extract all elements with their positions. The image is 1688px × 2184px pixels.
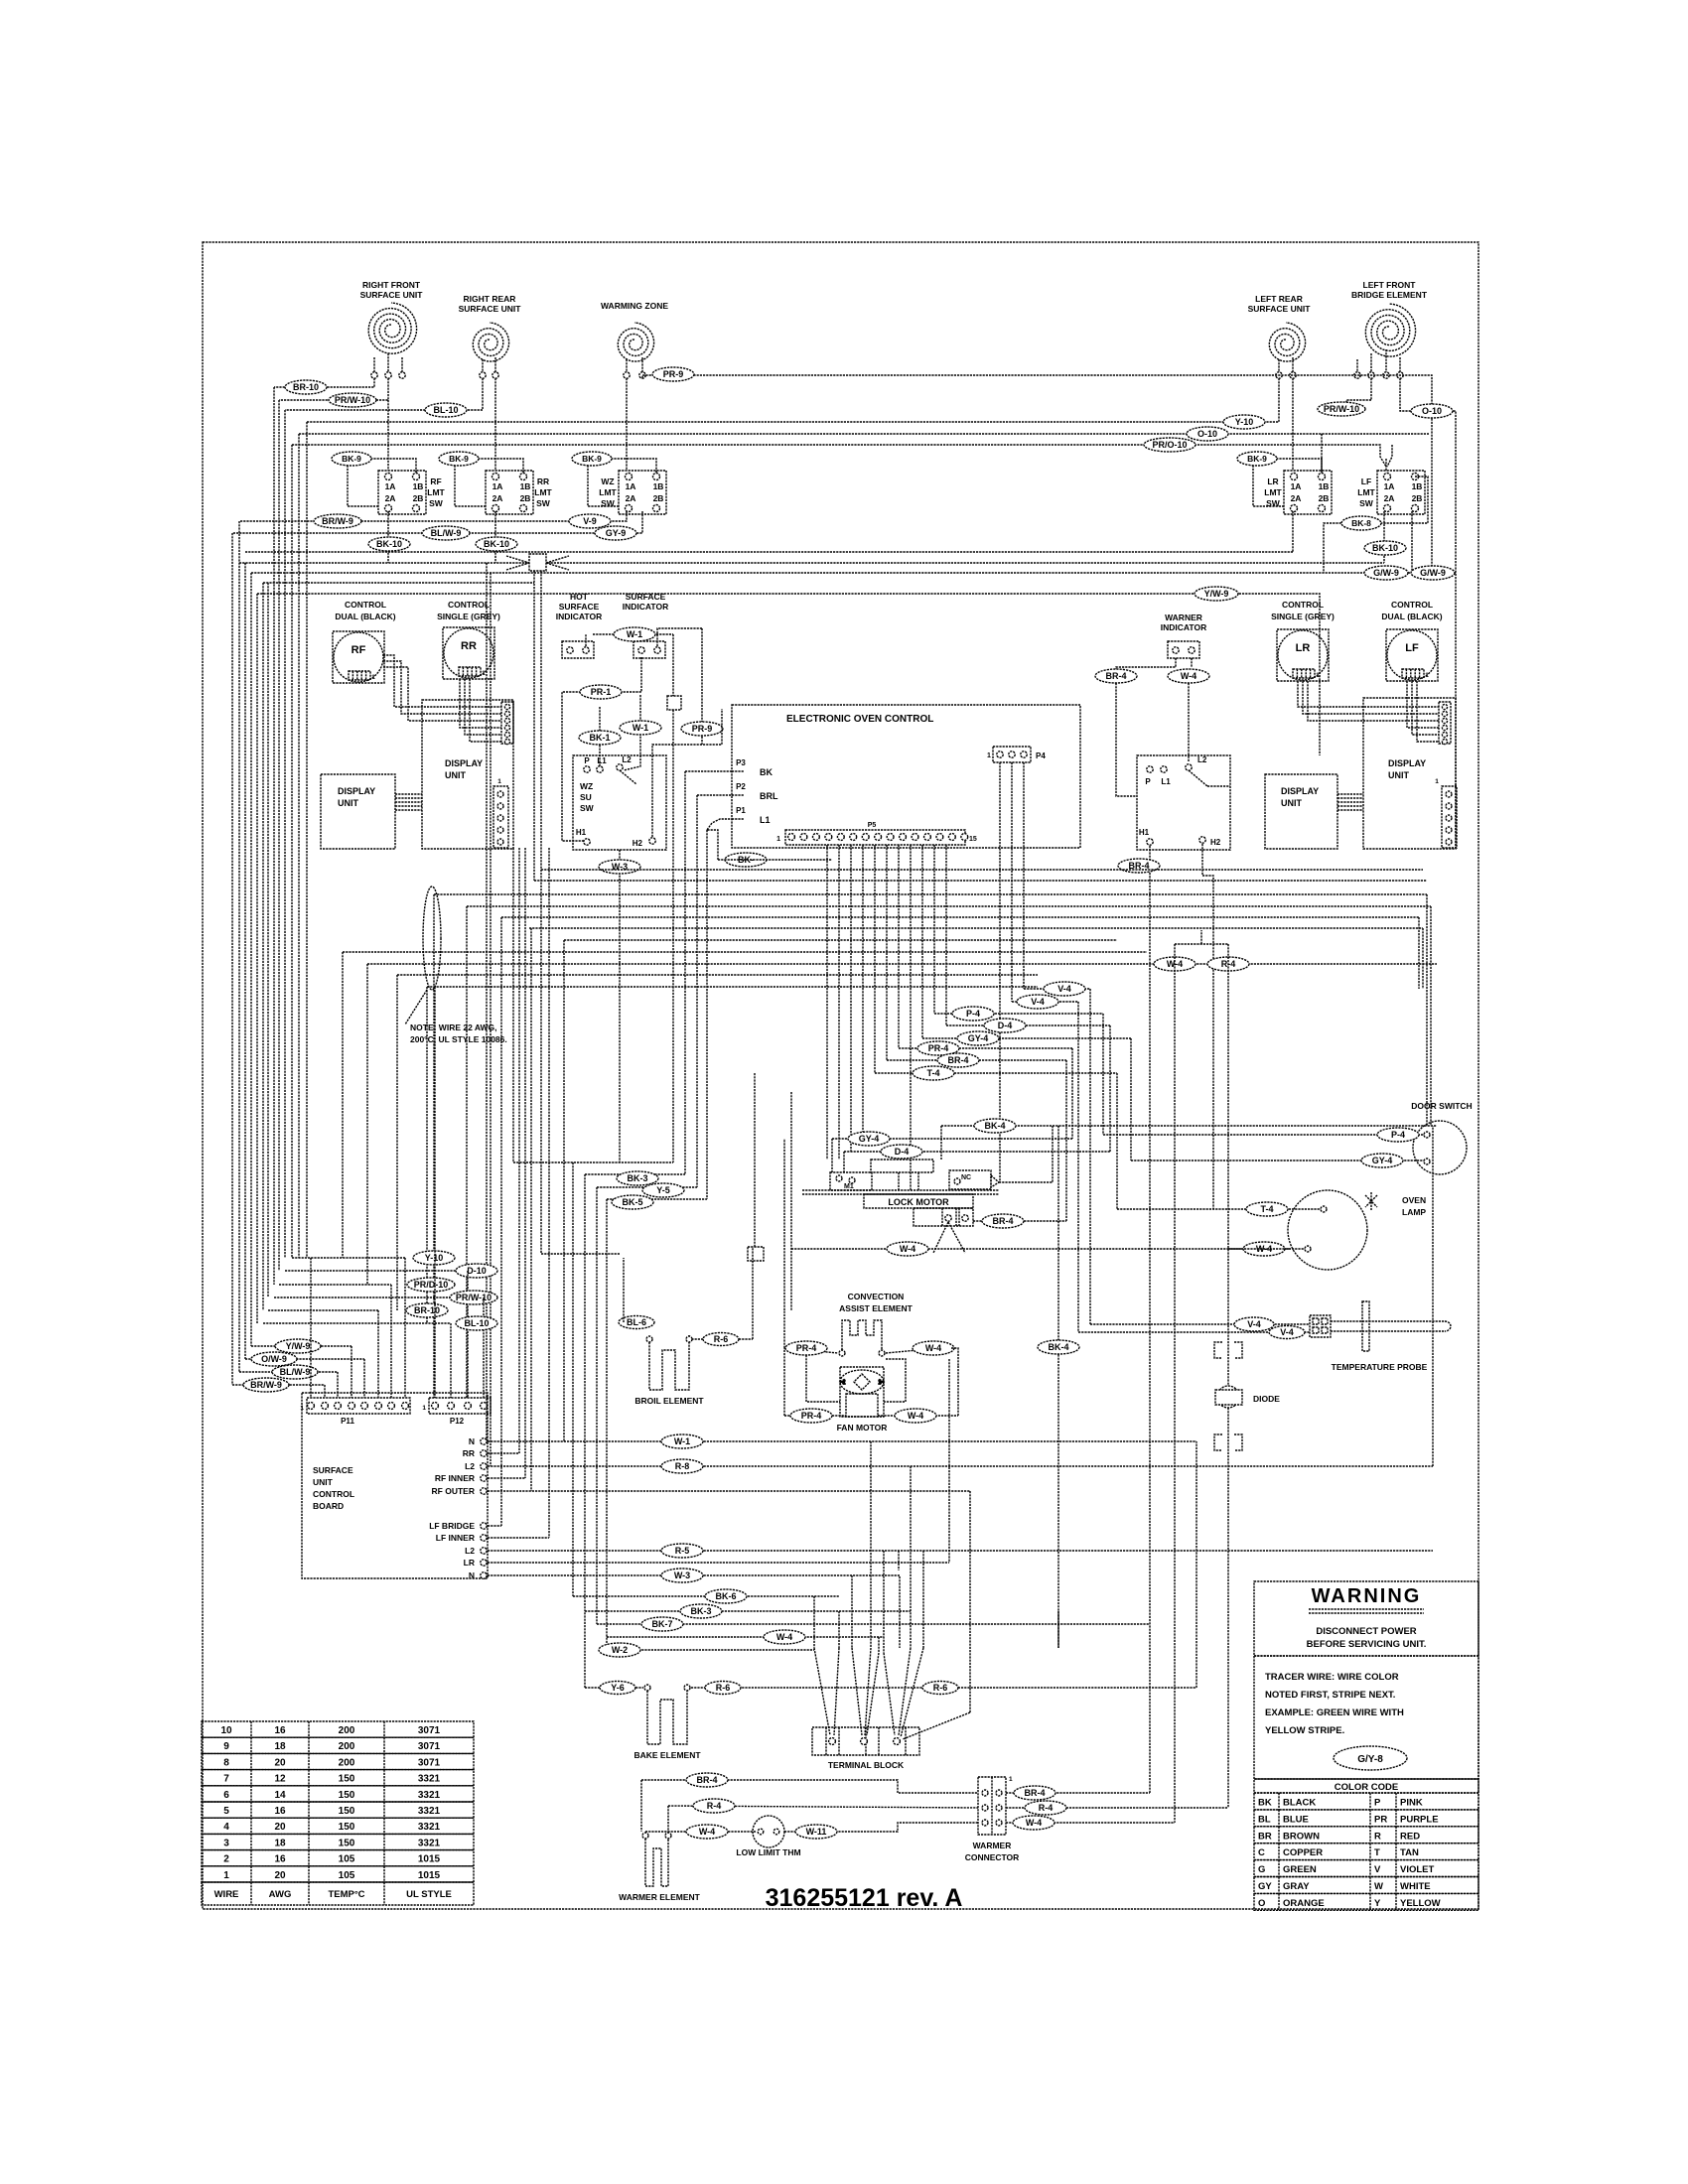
svg-text:6: 6 <box>223 1790 229 1801</box>
svg-text:SW: SW <box>536 498 551 508</box>
wire label W-3 <box>599 860 640 874</box>
pin RF INNER <box>481 1475 487 1481</box>
wire BK-6b vertical <box>1057 1611 1059 1648</box>
svg-text:BRL: BRL <box>760 791 778 801</box>
wire label W-3 <box>661 1569 703 1582</box>
wire BR-10 <box>274 378 374 387</box>
wire V-4 probe b <box>1078 1331 1310 1333</box>
svg-text:WARNER: WARNER <box>1165 613 1202 622</box>
wire harness bus <box>467 905 1431 907</box>
wire label BK-6 <box>705 1589 747 1603</box>
svg-text:150: 150 <box>339 1838 355 1848</box>
svg-text:DISPLAY: DISPLAY <box>445 758 483 768</box>
wire PR-9b <box>701 628 703 745</box>
wire label BK-10 <box>1364 541 1406 555</box>
wire GY-9 bus <box>232 511 642 533</box>
wire BK-7 <box>597 1623 1150 1625</box>
svg-text:1: 1 <box>300 1405 304 1412</box>
wire label G/W-9 <box>1364 566 1408 580</box>
svg-text:DUAL (BLACK): DUAL (BLACK) <box>335 612 395 621</box>
wire label P-4 <box>952 1007 994 1021</box>
svg-text:150: 150 <box>339 1806 355 1817</box>
wire P4 pin verticals <box>1023 762 1025 989</box>
wire D-4 lock <box>844 1151 1110 1153</box>
svg-text:PR-4: PR-4 <box>796 1343 817 1353</box>
wire label GY-4 <box>957 1031 999 1045</box>
wire P1 <box>707 819 732 830</box>
svg-text:W-1: W-1 <box>627 629 642 639</box>
svg-text:Y/W-9: Y/W-9 <box>286 1341 311 1351</box>
wire junction crossing <box>529 554 546 571</box>
wire label G/W-9 <box>1411 566 1455 580</box>
wire label W-4 <box>1154 957 1196 971</box>
svg-text:TEMP°C: TEMP°C <box>328 1889 364 1900</box>
connector P5 <box>785 830 965 845</box>
svg-text:DUAL (BLACK): DUAL (BLACK) <box>1381 612 1442 621</box>
svg-text:WARNING: WARNING <box>1312 1585 1422 1607</box>
surface unit control board <box>302 1393 488 1578</box>
svg-text:L2: L2 <box>465 1546 475 1556</box>
svg-text:W-4: W-4 <box>1026 1818 1042 1828</box>
wire harness bus <box>397 974 1038 976</box>
wire BK-6 <box>573 1595 839 1597</box>
wire LF INNER stub <box>488 1537 549 1539</box>
note arrow <box>405 990 427 1024</box>
svg-text:LR: LR <box>464 1558 475 1568</box>
svg-text:2B: 2B <box>520 493 531 503</box>
svg-text:RF: RF <box>352 644 366 656</box>
wire PR/D-10 harness <box>279 1284 391 1286</box>
wire label BK-8 <box>1341 516 1381 530</box>
wire RF OUTER stub <box>488 1490 970 1492</box>
wire x544 <box>540 571 542 1254</box>
svg-text:PR/W-10: PR/W-10 <box>456 1293 492 1302</box>
svg-text:WIRE: WIRE <box>214 1889 239 1900</box>
wire GY-4 door <box>1131 1160 1424 1161</box>
terminal block funnel wires <box>814 1648 830 1735</box>
wire label PR/W-10 <box>329 393 376 407</box>
svg-text:SURFACE: SURFACE <box>626 592 666 602</box>
svg-text:L1: L1 <box>1161 777 1171 786</box>
svg-text:L1: L1 <box>760 815 771 825</box>
svg-text:2B: 2B <box>1412 493 1423 503</box>
wire vertical x523 <box>518 848 520 1453</box>
svg-text:LR: LR <box>1267 477 1278 486</box>
wire BR-10 harness <box>268 1309 378 1311</box>
wire R-6 broil <box>689 1335 721 1339</box>
svg-text:TRACER WIRE: WIRE COLOR: TRACER WIRE: WIRE COLOR <box>1265 1672 1399 1683</box>
display center bottom connector <box>493 786 508 848</box>
lock motor V legs <box>933 1222 948 1253</box>
pin N <box>481 1572 487 1578</box>
surface unit coil RIGHT FRONT <box>368 303 416 353</box>
wire label BL-10 <box>456 1316 497 1330</box>
wire vertical x505b <box>500 917 502 1526</box>
svg-text:V-4: V-4 <box>1031 997 1045 1007</box>
svg-text:V: V <box>1374 1864 1381 1875</box>
limit switch LF LMT SW <box>1377 471 1425 514</box>
wire BK-10 RF <box>387 511 389 563</box>
low limit thermostat <box>753 1816 784 1847</box>
wire fan loop <box>806 1355 840 1402</box>
svg-text:P-4: P-4 <box>1391 1130 1405 1140</box>
svg-text:SW: SW <box>580 803 595 813</box>
connector P11 <box>307 1398 410 1414</box>
wire P1 vertical <box>706 830 708 1199</box>
wire BR-4 <box>887 1059 1066 1061</box>
wire harness bus <box>564 939 1117 941</box>
svg-text:Y-5: Y-5 <box>656 1185 670 1195</box>
svg-text:V-4: V-4 <box>1247 1319 1261 1329</box>
wire PR-9 <box>642 375 1432 566</box>
wire PR/W-10 at LF <box>1321 400 1371 412</box>
wire harness vertical <box>273 387 275 1285</box>
wire label Y/W-9 <box>1195 587 1238 601</box>
warning box <box>1254 1581 1478 1656</box>
wire W-4 warmer <box>645 1831 757 1833</box>
wire label W-2 <box>599 1643 640 1657</box>
wire label BR-10 <box>406 1303 448 1317</box>
wire SI right up <box>657 628 702 646</box>
svg-text:BK-5: BK-5 <box>622 1197 642 1207</box>
wire P3 <box>685 770 732 772</box>
svg-text:BR/W-9: BR/W-9 <box>322 516 353 526</box>
svg-text:LMT: LMT <box>534 487 552 497</box>
svg-text:GY: GY <box>1258 1881 1272 1892</box>
temperature probe connector <box>1310 1315 1331 1337</box>
display right bottom connector <box>1442 786 1457 848</box>
wire harness vertical <box>244 563 246 1359</box>
svg-text:W-4: W-4 <box>699 1827 715 1837</box>
svg-text:W-2: W-2 <box>612 1645 628 1655</box>
wire PR-4 <box>899 1047 1072 1049</box>
svg-text:2B: 2B <box>413 493 424 503</box>
svg-text:LEFT FRONT: LEFT FRONT <box>1363 280 1417 290</box>
svg-text:PR-9: PR-9 <box>663 369 684 379</box>
wire label Y/W-9 <box>275 1339 321 1353</box>
svg-text:UNIT: UNIT <box>1388 770 1409 780</box>
wire label R-6 <box>922 1682 958 1695</box>
svg-text:150: 150 <box>339 1822 355 1833</box>
wire Y/W-9 harness <box>251 1345 352 1347</box>
svg-text:RR: RR <box>537 477 549 486</box>
svg-text:PURPLE: PURPLE <box>1400 1814 1439 1825</box>
wire R-8 L2 <box>488 1465 1433 1467</box>
wire label Y-5 <box>642 1183 684 1197</box>
wire label R-6 <box>705 1682 741 1695</box>
svg-text:AWG: AWG <box>269 1889 292 1900</box>
svg-text:BK-6: BK-6 <box>715 1591 736 1601</box>
svg-text:CONNECTOR: CONNECTOR <box>965 1852 1020 1862</box>
wire label P-4 <box>1377 1128 1419 1142</box>
wire label W-1 <box>620 721 661 735</box>
svg-text:18: 18 <box>274 1838 286 1848</box>
wire LF pin4 <box>1400 378 1456 848</box>
wire label PR-1 <box>580 685 622 699</box>
wire label R-4 <box>1207 957 1249 971</box>
wire label BK-5 <box>612 1195 653 1209</box>
svg-text:20: 20 <box>274 1757 286 1768</box>
pin RR <box>481 1450 487 1456</box>
svg-text:3321: 3321 <box>418 1774 441 1785</box>
svg-text:RIGHT REAR: RIGHT REAR <box>464 294 516 304</box>
wire BK-4 <box>941 1125 1437 1127</box>
wire label GY-9 <box>595 526 636 540</box>
svg-text:BK-3: BK-3 <box>690 1606 711 1616</box>
wire label PR/W-10 <box>450 1291 497 1304</box>
lock motor switch right <box>949 1170 991 1189</box>
display unit <box>422 700 513 849</box>
wire loop BK-9 LR LMT SW <box>1253 459 1322 506</box>
svg-text:1A: 1A <box>492 481 503 491</box>
display center top connector <box>501 702 513 744</box>
svg-text:PINK: PINK <box>1400 1798 1423 1809</box>
svg-text:L1: L1 <box>597 756 607 765</box>
wire label BK-4 <box>974 1119 1016 1133</box>
wire W-4 <box>1191 658 1193 667</box>
wire bus y587 <box>263 582 534 584</box>
wire W-3 <box>619 850 621 1162</box>
pin L2 <box>481 1548 487 1554</box>
switch lever <box>620 770 636 784</box>
wire label BK-9 <box>572 452 612 466</box>
svg-text:BK-4: BK-4 <box>1048 1342 1068 1352</box>
svg-text:W-3: W-3 <box>674 1570 690 1580</box>
wire vertical x568b <box>563 940 565 1441</box>
wire label BK-7 <box>641 1617 683 1631</box>
svg-text:2A: 2A <box>1384 493 1395 503</box>
wire LR pin2 down <box>1292 378 1294 471</box>
svg-text:LF BRIDGE: LF BRIDGE <box>429 1521 475 1531</box>
svg-text:W-11: W-11 <box>806 1827 827 1837</box>
wire label D-10 <box>456 1264 497 1278</box>
svg-text:1: 1 <box>1425 672 1429 679</box>
wire label PR-4 <box>785 1341 827 1355</box>
wire label W-1 <box>661 1434 703 1448</box>
svg-text:WARMER ELEMENT: WARMER ELEMENT <box>619 1892 701 1902</box>
svg-text:N: N <box>469 1570 475 1580</box>
connector P12 <box>429 1398 491 1414</box>
limit switch LR LMT SW <box>1284 471 1332 514</box>
svg-text:PR-1: PR-1 <box>591 687 612 697</box>
wire P2 vertical <box>696 795 698 1187</box>
display unit <box>1363 698 1456 849</box>
svg-text:UL STYLE: UL STYLE <box>406 1889 452 1900</box>
wire label BR/W-9 <box>314 514 361 528</box>
svg-text:R: R <box>1374 1831 1381 1842</box>
wire label BR-4 <box>937 1053 979 1067</box>
svg-text:G/Y-8: G/Y-8 <box>1357 1754 1383 1765</box>
warmer surface switch box <box>1137 755 1230 850</box>
svg-text:BK-9: BK-9 <box>342 454 361 464</box>
wire label BK- <box>725 853 767 867</box>
svg-text:O: O <box>1258 1898 1265 1909</box>
wire PR/O-10 bus <box>292 445 1386 467</box>
color code table <box>1254 1779 1478 1793</box>
wire harness vertical <box>267 583 269 1297</box>
wire G/W-9b <box>1412 572 1456 574</box>
svg-text:O-10: O-10 <box>1197 429 1217 439</box>
wire label W-4 <box>764 1630 805 1644</box>
svg-text:BLUE: BLUE <box>1283 1814 1309 1825</box>
knob LF to display wires <box>1407 681 1439 728</box>
svg-text:BOARD: BOARD <box>313 1501 344 1511</box>
surface unit coil LEFT FRONT BRIDGE <box>1365 304 1415 356</box>
svg-text:1: 1 <box>497 778 501 785</box>
wire GY-4 lock <box>832 1138 1072 1140</box>
wire BK-4 mid <box>1057 1126 1059 1648</box>
svg-text:7: 7 <box>223 1774 229 1785</box>
svg-text:BK-4: BK-4 <box>984 1121 1005 1131</box>
limit switch RF LMT SW <box>378 471 426 514</box>
svg-text:LAMP: LAMP <box>1402 1207 1426 1217</box>
wire BK-10 bus <box>239 562 1384 564</box>
svg-text:CONTROL: CONTROL <box>1391 600 1433 610</box>
wire PR/W-10 harness <box>274 1297 484 1298</box>
svg-text:2A: 2A <box>492 493 503 503</box>
svg-text:NOTED FIRST, STRIPE NEXT.: NOTED FIRST, STRIPE NEXT. <box>1265 1690 1395 1701</box>
svg-text:BR/W-9: BR/W-9 <box>250 1380 282 1390</box>
svg-text:UNIT: UNIT <box>338 798 358 808</box>
svg-text:P: P <box>1374 1798 1381 1809</box>
svg-text:H2: H2 <box>633 839 643 848</box>
wire label O-10 <box>1411 404 1453 418</box>
svg-text:W-1: W-1 <box>633 723 648 733</box>
svg-text:1: 1 <box>1316 672 1320 679</box>
wires P5 descending <box>826 845 828 1160</box>
wire harness vertical <box>284 410 286 1258</box>
wire label Y-10 <box>1223 415 1265 429</box>
svg-text:LMT: LMT <box>1357 487 1375 497</box>
svg-text:D-10: D-10 <box>467 1266 487 1276</box>
svg-text:WHITE: WHITE <box>1400 1881 1431 1892</box>
svg-text:1B: 1B <box>653 481 664 491</box>
coil terminal pins <box>371 372 377 378</box>
wire junction verticals <box>672 634 674 696</box>
wire label V-4 <box>1044 982 1085 996</box>
svg-text:PR/D-10: PR/D-10 <box>414 1280 449 1290</box>
svg-text:COLOR CODE: COLOR CODE <box>1335 1782 1398 1793</box>
svg-text:INDICATOR: INDICATOR <box>1161 622 1206 632</box>
svg-text:18: 18 <box>274 1741 286 1752</box>
svg-text:W-4: W-4 <box>925 1343 941 1353</box>
svg-text:RIGHT FRONT: RIGHT FRONT <box>362 280 421 290</box>
svg-text:RR: RR <box>463 1448 475 1458</box>
svg-text:CONTROL: CONTROL <box>345 600 386 610</box>
wire LR 2A down <box>1292 511 1294 552</box>
wire pin RF2 to 1A <box>387 400 389 471</box>
wire BL-6 <box>624 1321 649 1323</box>
svg-text:YELLOW STRIPE.: YELLOW STRIPE. <box>1265 1725 1344 1736</box>
svg-text:UNIT: UNIT <box>1281 798 1302 808</box>
svg-text:Y: Y <box>1374 1898 1381 1909</box>
svg-text:P12: P12 <box>450 1417 465 1426</box>
wire label V-9 <box>569 514 611 528</box>
wire BL/W-9 harness <box>239 1371 338 1373</box>
svg-text:L2: L2 <box>622 755 632 764</box>
svg-text:CONTROL: CONTROL <box>1282 600 1324 610</box>
limit switch RR LMT SW <box>486 471 533 514</box>
svg-text:NOTE: WIRE 22 AWG,: NOTE: WIRE 22 AWG, <box>410 1023 497 1032</box>
wire harness vertical <box>306 422 308 1258</box>
wire harness bus <box>529 927 1423 929</box>
svg-text:R-5: R-5 <box>675 1546 690 1556</box>
svg-text:TERMINAL BLOCK: TERMINAL BLOCK <box>828 1760 905 1770</box>
svg-text:DISPLAY: DISPLAY <box>1388 758 1426 768</box>
control knob LF (CONTROL DUAL (BLACK)) <box>1386 629 1438 681</box>
svg-text:SW: SW <box>429 498 444 508</box>
wire label BR/W-9 <box>243 1378 289 1392</box>
wire label Y-6 <box>600 1682 635 1695</box>
page border frame <box>203 242 1478 1909</box>
svg-text:C: C <box>1258 1847 1265 1858</box>
svg-text:8: 8 <box>223 1757 229 1768</box>
svg-text:BROIL ELEMENT: BROIL ELEMENT <box>634 1396 704 1406</box>
svg-text:3321: 3321 <box>418 1838 441 1848</box>
svg-text:BEFORE SERVICING UNIT.: BEFORE SERVICING UNIT. <box>1307 1639 1427 1650</box>
wire label BK-3 <box>617 1171 658 1185</box>
temperature probe body <box>1331 1320 1445 1322</box>
svg-text:CONVECTION: CONVECTION <box>848 1292 905 1301</box>
svg-text:D-4: D-4 <box>895 1147 910 1157</box>
wire W-4 lock <box>791 1248 1291 1250</box>
wire label BR-4 <box>1095 669 1137 683</box>
svg-text:BROWN: BROWN <box>1283 1831 1320 1842</box>
svg-text:PR-4: PR-4 <box>801 1411 822 1421</box>
svg-text:GY-9: GY-9 <box>606 528 627 538</box>
svg-text:Y-10: Y-10 <box>1235 417 1254 427</box>
svg-text:P: P <box>584 756 590 765</box>
svg-text:LOW LIMIT THM: LOW LIMIT THM <box>736 1847 800 1857</box>
svg-text:H1: H1 <box>1139 828 1150 837</box>
wire vertical x529 <box>524 848 526 1478</box>
junction box <box>667 696 681 710</box>
wire G/W-9 bus <box>251 511 1412 573</box>
wire label T-4 <box>1246 1202 1288 1216</box>
wire right bundle verticals <box>1426 894 1428 1126</box>
svg-text:P4: P4 <box>1036 751 1046 760</box>
svg-text:P11: P11 <box>341 1417 354 1426</box>
pin N <box>481 1438 487 1444</box>
diode symbol <box>1214 1342 1222 1358</box>
surface unit coil WARMING ZONE <box>618 323 653 361</box>
svg-text:16: 16 <box>274 1806 286 1817</box>
svg-text:LR: LR <box>1296 642 1311 654</box>
wire label W-4 <box>1243 1242 1285 1256</box>
svg-text:1B: 1B <box>1319 481 1330 491</box>
svg-text:ORANGE: ORANGE <box>1283 1898 1325 1909</box>
svg-text:SURFACE UNIT: SURFACE UNIT <box>360 290 424 300</box>
wire W-4 R-4 top link <box>1175 943 1228 945</box>
svg-text:BLACK: BLACK <box>1283 1798 1316 1809</box>
svg-text:P-4: P-4 <box>966 1009 980 1019</box>
svg-text:PR/O-10: PR/O-10 <box>1152 440 1187 450</box>
surface unit coil RIGHT REAR <box>473 323 508 361</box>
svg-text:Y-6: Y-6 <box>611 1683 625 1693</box>
svg-text:SURFACE: SURFACE <box>313 1465 353 1475</box>
svg-text:RF: RF <box>430 477 441 486</box>
svg-text:1: 1 <box>482 670 486 677</box>
example wire label G/Y-8 <box>1334 1746 1407 1770</box>
wire label BR-4 <box>686 1773 728 1787</box>
svg-text:RED: RED <box>1400 1831 1420 1842</box>
svg-text:UNIT: UNIT <box>445 770 466 780</box>
svg-text:LF INNER: LF INNER <box>436 1533 475 1543</box>
svg-text:1A: 1A <box>385 481 396 491</box>
svg-text:R-4: R-4 <box>707 1801 722 1811</box>
svg-text:5: 5 <box>223 1806 229 1817</box>
wire O-10 bus <box>299 433 1429 435</box>
